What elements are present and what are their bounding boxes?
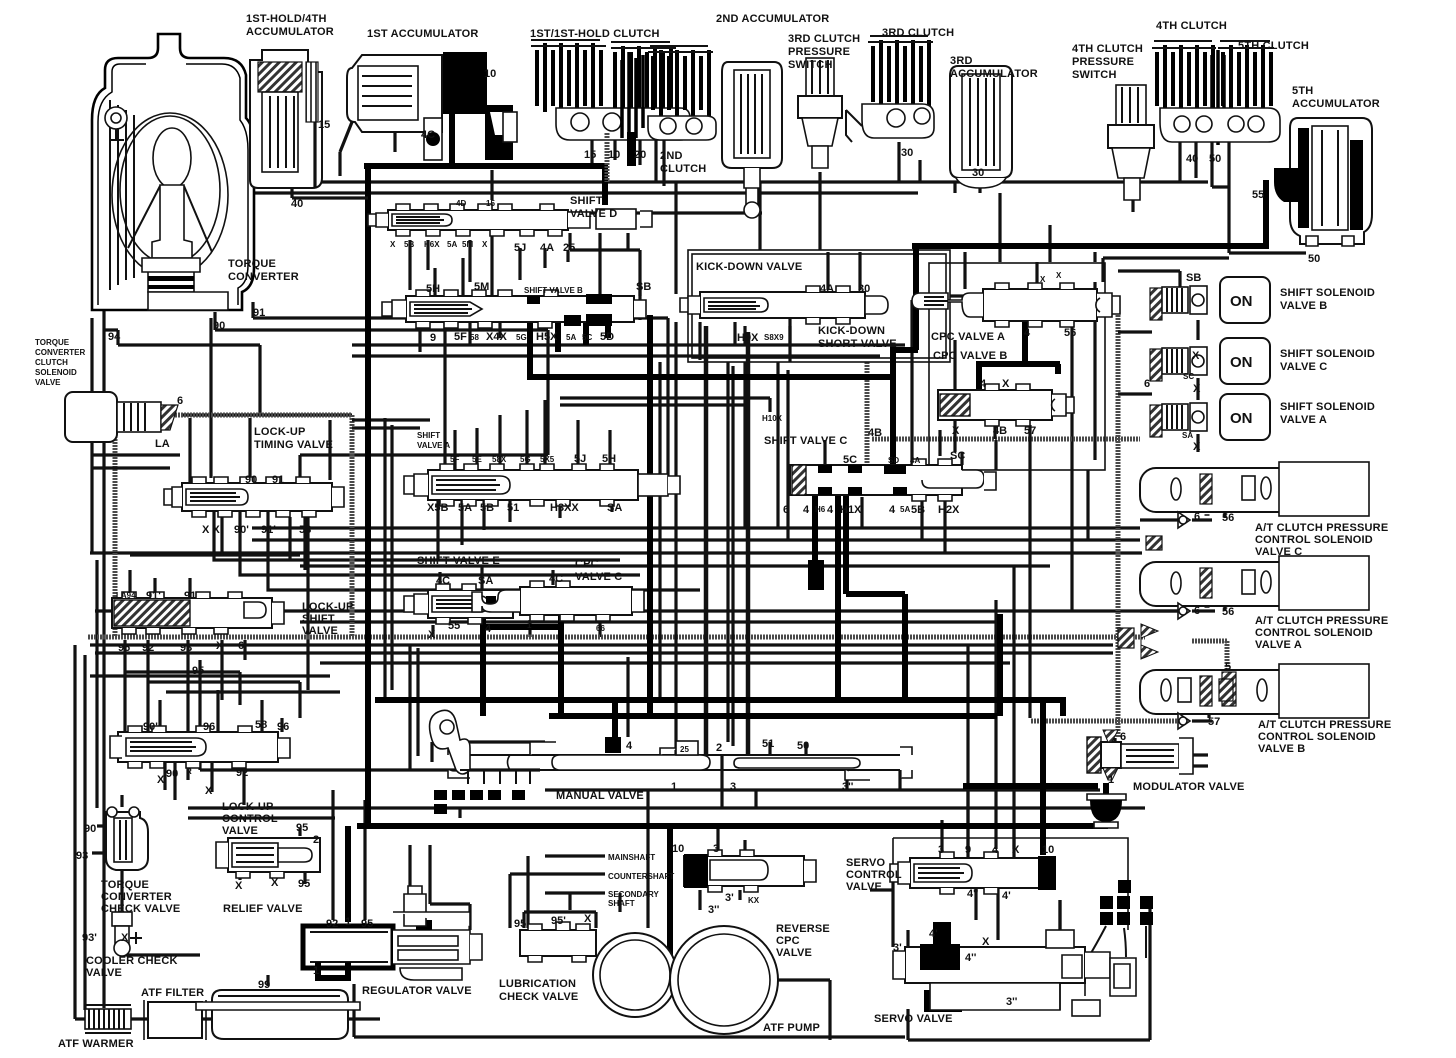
- svg-text:X: X: [271, 877, 279, 889]
- svg-text:5J: 5J: [514, 242, 526, 254]
- wire top right link: [1093, 252, 1096, 262]
- wire TCC solenoid 6: [182, 413, 352, 416]
- svg-text:ATF PUMP: ATF PUMP: [763, 1022, 820, 1034]
- svg-text:X5B: X5B: [427, 502, 448, 514]
- svg-text:LOCK-UP: LOCK-UP: [222, 801, 274, 813]
- svg-text:10: 10: [672, 843, 684, 855]
- thick shiftB drops: [530, 315, 650, 716]
- svg-text:SERVO: SERVO: [846, 857, 886, 869]
- svg-text:40: 40: [291, 198, 303, 210]
- wire cpc box: [929, 263, 1105, 470]
- svg-text:4'': 4'': [965, 952, 977, 964]
- torque converter U-TC: [92, 34, 254, 310]
- clutch hub 1st: [622, 52, 643, 148]
- wire bus y653: [95, 651, 1113, 654]
- regulator valve: [303, 886, 482, 980]
- 3rd clutch: [846, 36, 934, 142]
- wire 2nd accum drop: [752, 168, 760, 250]
- port 20 black: [627, 132, 636, 166]
- wire 50 accum route: [1103, 140, 1306, 282]
- svg-text:3': 3': [893, 942, 902, 954]
- gear ind squares: [1100, 880, 1153, 925]
- svg-text:90: 90: [213, 320, 225, 332]
- thick bus y700: [375, 697, 1063, 703]
- svg-text:90: 90: [245, 474, 257, 486]
- wire servo bottom link: [908, 900, 1150, 1040]
- svg-text:MODULATOR VALVE: MODULATOR VALVE: [1133, 781, 1245, 793]
- svg-text:20: 20: [634, 149, 646, 161]
- svg-text:4TH CLUTCH: 4TH CLUTCH: [1072, 43, 1143, 55]
- wire torque converter left feeds: [102, 300, 105, 1008]
- wire 3rd psw drop: [818, 172, 821, 250]
- svg-text:1: 1: [527, 621, 532, 630]
- wire mid bundle5: [352, 420, 430, 428]
- svg-text:4: 4: [1024, 327, 1031, 339]
- svg-text:5M: 5M: [462, 240, 473, 249]
- wire mid bundle4: [300, 564, 1050, 567]
- shift valve B: [382, 290, 646, 328]
- svg-text:30: 30: [858, 283, 870, 295]
- svg-text:4A: 4A: [540, 242, 554, 254]
- svg-text:TORQUE: TORQUE: [101, 879, 149, 891]
- wire suction bundle: [90, 663, 1010, 676]
- svg-text:6: 6: [1144, 378, 1150, 390]
- svg-text:5B: 5B: [404, 240, 414, 249]
- wire 94: [104, 330, 260, 415]
- servo control valve: [890, 852, 1056, 894]
- 1st/1st-hold clutch: [531, 40, 690, 140]
- svg-text:99: 99: [258, 979, 270, 991]
- TCC solenoid: [65, 392, 178, 442]
- svg-text:SHIFT: SHIFT: [417, 431, 440, 440]
- wire cpcB bottom 4B: [993, 421, 996, 439]
- wire left bus C: [95, 560, 98, 808]
- thick y377 bus: [527, 374, 895, 380]
- svg-text:25: 25: [680, 745, 689, 754]
- svg-text:CPC: CPC: [575, 558, 599, 570]
- wire lockup control outputs: [165, 762, 244, 805]
- svg-text:CLUTCH: CLUTCH: [35, 358, 68, 367]
- svg-text:5H: 5H: [426, 283, 440, 295]
- svg-text:SA: SA: [478, 575, 493, 587]
- svg-text:9: 9: [965, 844, 971, 856]
- svg-text:5H: 5H: [602, 453, 616, 465]
- svg-text:9: 9: [430, 332, 436, 344]
- svg-text:MAINSHAFT: MAINSHAFT: [608, 853, 655, 862]
- manual valve lever: [430, 710, 470, 774]
- svg-text:4B: 4B: [868, 427, 882, 439]
- svg-text:6: 6: [238, 640, 244, 652]
- hatch block 5: [1219, 679, 1233, 701]
- svg-text:50: 50: [1308, 253, 1320, 265]
- svg-text:5A: 5A: [447, 240, 457, 249]
- svg-text:COUNTERSHAFT: COUNTERSHAFT: [608, 872, 674, 881]
- svg-text:57: 57: [1208, 716, 1220, 728]
- 1st accumulator: [340, 52, 487, 176]
- svg-text:58X: 58X: [492, 455, 507, 464]
- svg-text:ON: ON: [1230, 293, 1253, 310]
- wire 4th psw drop: [1131, 182, 1134, 212]
- svg-text:SHIFT SOLENOID: SHIFT SOLENOID: [1280, 287, 1375, 299]
- wire shiftE feeds: [433, 565, 482, 637]
- lubrication check valve: [520, 912, 596, 962]
- svg-text:ACCUMULATOR: ACCUMULATOR: [950, 68, 1038, 80]
- svg-text:H1X: H1X: [840, 504, 862, 516]
- svg-text:LUBRICATION: LUBRICATION: [499, 978, 576, 990]
- svg-text:5J: 5J: [574, 453, 586, 465]
- svg-text:X: X: [584, 913, 592, 925]
- svg-text:3RD: 3RD: [950, 55, 973, 67]
- torque converter check valve: [106, 807, 148, 870]
- svg-text:4': 4': [1002, 890, 1011, 902]
- svg-text:90': 90': [143, 721, 158, 733]
- wire hatch main bus: [88, 635, 1145, 640]
- wire solenoid feeds: [1118, 271, 1198, 452]
- thick right jog: [893, 243, 918, 472]
- wire cpcA top feeds: [965, 193, 1050, 290]
- svg-text:3: 3: [713, 843, 719, 855]
- svg-text:5D: 5D: [600, 331, 614, 343]
- svg-text:56: 56: [1222, 512, 1234, 524]
- svg-text:CONTROL SOLENOID: CONTROL SOLENOID: [1255, 627, 1373, 639]
- svg-text:58: 58: [299, 524, 311, 536]
- svg-text:3RD CLUTCH: 3RD CLUTCH: [882, 27, 954, 39]
- svg-text:LA: LA: [155, 438, 170, 450]
- svg-text:SHIFT VALVE C: SHIFT VALVE C: [764, 435, 847, 447]
- wire servo control long drops: [968, 566, 1014, 850]
- svg-text:3RD CLUTCH: 3RD CLUTCH: [788, 33, 860, 45]
- svg-text:5B: 5B: [480, 502, 494, 514]
- svg-text:A/T CLUTCH PRESSURE: A/T CLUTCH PRESSURE: [1258, 719, 1391, 731]
- wire timing valve drops: [222, 517, 290, 560]
- 4th clutch: [1152, 41, 1216, 112]
- svg-text:1ST/1ST-HOLD CLUTCH: 1ST/1ST-HOLD CLUTCH: [530, 28, 660, 40]
- svg-text:93: 93: [180, 642, 192, 654]
- wire relief to regulator: [333, 790, 365, 920]
- wire 56 long drop: [1070, 322, 1073, 612]
- svg-text:5: 5: [1225, 661, 1231, 673]
- small check valve pair: [424, 105, 517, 160]
- wire valve D bottom drops: [410, 240, 568, 290]
- svg-text:VALVE B: VALVE B: [1280, 300, 1327, 312]
- svg-text:CONTROL: CONTROL: [222, 813, 278, 825]
- wire 90: [215, 312, 548, 478]
- svg-text:3: 3: [730, 781, 736, 793]
- svg-text:X: X: [216, 640, 224, 652]
- svg-text:92: 92: [142, 642, 154, 654]
- wire shift B drops thin: [420, 322, 500, 470]
- svg-text:X: X: [1192, 350, 1200, 362]
- thick cpcC drop: [558, 610, 564, 716]
- svg-text:6: 6: [1194, 511, 1200, 523]
- wire shiftC right spool lines: [962, 440, 996, 470]
- AT cpc solenoid valve B: [1140, 664, 1369, 718]
- svg-text:VALVE A: VALVE A: [1255, 639, 1302, 651]
- wire mid bundle2: [252, 538, 1140, 541]
- svg-text:40: 40: [1186, 153, 1198, 165]
- wire 5th clutch 50: [1212, 142, 1229, 187]
- svg-text:93': 93': [82, 932, 97, 944]
- wire pump lines: [131, 975, 905, 1037]
- svg-text:91: 91: [184, 590, 196, 602]
- svg-text:15: 15: [486, 199, 495, 208]
- svg-text:90': 90': [234, 524, 249, 536]
- svg-text:5M: 5M: [474, 281, 489, 293]
- wire servo box inner: [908, 900, 1060, 947]
- svg-text:R: R: [186, 767, 192, 776]
- svg-text:66: 66: [596, 624, 605, 633]
- svg-text:TORQUE: TORQUE: [228, 258, 276, 270]
- svg-text:96: 96: [277, 721, 289, 733]
- svg-text:X4X: X4X: [486, 331, 507, 343]
- wire 58: [308, 420, 330, 690]
- svg-text:3: 3: [938, 844, 944, 856]
- svg-text:S8X9: S8X9: [764, 333, 784, 342]
- svg-text:SOLENOID: SOLENOID: [35, 368, 77, 377]
- svg-text:4: 4: [889, 504, 896, 516]
- svg-text:H2X: H2X: [938, 504, 960, 516]
- svg-text:4: 4: [980, 378, 987, 390]
- svg-text:50: 50: [1209, 153, 1221, 165]
- wire 4B pipe: [867, 437, 1140, 465]
- thick shiftE drop: [480, 604, 486, 716]
- wire regulator feeds: [410, 845, 470, 930]
- svg-text:6: 6: [1120, 731, 1126, 743]
- wire shiftA bottoms: [438, 500, 612, 560]
- cpc valve A: [912, 283, 1120, 327]
- svg-text:55: 55: [1252, 189, 1264, 201]
- svg-text:3': 3': [725, 892, 734, 904]
- svg-text:VALVE B: VALVE B: [1258, 743, 1305, 755]
- 3rd clutch pressure switch: [798, 58, 842, 168]
- svg-text:VALVE D: VALVE D: [570, 208, 617, 220]
- thick shiftC drops: [815, 495, 905, 700]
- svg-text:5G: 5G: [516, 333, 527, 342]
- svg-text:A/T CLUTCH PRESSURE: A/T CLUTCH PRESSURE: [1255, 522, 1388, 534]
- svg-text:92: 92: [236, 767, 248, 779]
- wire stair steps left: [125, 672, 340, 718]
- cpc valve C: [472, 581, 644, 621]
- shift valve A: [404, 464, 680, 506]
- svg-text:CONTROL: CONTROL: [846, 869, 902, 881]
- svg-text:2ND ACCUMULATOR: 2ND ACCUMULATOR: [716, 13, 829, 25]
- svg-text:90: 90: [166, 768, 178, 780]
- wire lockup timing outputs: [214, 512, 700, 590]
- thick bottom bus: [357, 823, 1108, 829]
- svg-text:SA: SA: [1182, 431, 1193, 440]
- svg-text:91: 91: [272, 474, 284, 486]
- AT cpc solenoid valve A: [1140, 556, 1369, 610]
- svg-text:96: 96: [118, 642, 130, 654]
- svg-text:57: 57: [1024, 425, 1036, 437]
- svg-text:4: 4: [485, 623, 492, 635]
- wire modulator 6: [1113, 738, 1116, 745]
- svg-text:1ST ACCUMULATOR: 1ST ACCUMULATOR: [367, 28, 479, 40]
- wire valveB to bundles: [676, 182, 735, 360]
- svg-text:REVERSE: REVERSE: [776, 923, 830, 935]
- svg-text:SWITCH: SWITCH: [788, 59, 833, 71]
- svg-text:5G: 5G: [520, 455, 531, 464]
- check sym capsule B: [1178, 713, 1190, 729]
- lock-up timing valve: [164, 477, 344, 517]
- svg-text:PRESSURE: PRESSURE: [788, 46, 850, 58]
- 5th clutch: [1160, 41, 1280, 142]
- svg-text:X: X: [121, 932, 129, 944]
- wire manual left arm: [432, 742, 545, 762]
- shift valve C: [790, 459, 996, 501]
- wire lockup control feeds: [160, 690, 282, 732]
- wire top bus 2: [95, 191, 918, 194]
- svg-text:4: 4: [992, 844, 999, 856]
- svg-text:X: X: [1193, 383, 1201, 395]
- svg-text:X: X: [982, 936, 990, 948]
- modulator check ball: [1087, 794, 1126, 828]
- svg-text:VALVE C: VALVE C: [1280, 361, 1327, 373]
- svg-text:VALVE A: VALVE A: [417, 441, 450, 450]
- thick bus y716: [549, 614, 1063, 716]
- svg-text:CLUTCH: CLUTCH: [660, 163, 706, 175]
- svg-text:2: 2: [313, 834, 319, 846]
- svg-text:5E: 5E: [472, 455, 482, 464]
- svg-text:X: X: [1012, 844, 1020, 856]
- svg-text:5X5: 5X5: [540, 455, 555, 464]
- svg-text:X: X: [157, 774, 165, 786]
- svg-text:REGULATOR VALVE: REGULATOR VALVE: [362, 985, 472, 997]
- wire shift B tops: [435, 230, 640, 296]
- svg-text:SWITCH: SWITCH: [1072, 69, 1117, 81]
- shift valve E: [404, 584, 513, 624]
- svg-text:X: X: [428, 629, 436, 641]
- svg-text:SHIFT: SHIFT: [302, 613, 335, 625]
- svg-text:4: 4: [626, 740, 633, 752]
- wire shiftB SB line: [752, 308, 790, 345]
- svg-text:CPC VALVE A: CPC VALVE A: [931, 331, 1005, 343]
- wire 4B down from kick: [865, 362, 870, 437]
- wire shiftA top feeds: [455, 400, 610, 470]
- kick-down valve spool: [680, 286, 888, 324]
- svg-text:SA: SA: [607, 502, 622, 514]
- svg-text:30: 30: [972, 167, 984, 179]
- svg-text:H9X: H9X: [737, 332, 759, 344]
- wire tc check valve: [92, 795, 200, 955]
- oil pan: [196, 990, 360, 1039]
- svg-text:SECONDARY: SECONDARY: [608, 890, 659, 899]
- wire heavy center pair: [706, 326, 748, 755]
- wire lockup hatch box: [115, 415, 352, 637]
- svg-text:VALVE: VALVE: [86, 967, 122, 979]
- wire 3rd accum 30: [955, 182, 980, 193]
- svg-text:4A: 4A: [910, 456, 920, 465]
- svg-text:CPC: CPC: [776, 935, 800, 947]
- svg-text:30: 30: [901, 147, 913, 159]
- wire lub check feeds: [620, 790, 648, 928]
- wire h10x line: [560, 398, 770, 412]
- wire servo control drops: [942, 790, 1014, 858]
- wire capsuleA port6: [1205, 571, 1210, 608]
- svg-text:95: 95: [514, 918, 526, 930]
- shift solenoid valve B assy: [1150, 277, 1270, 323]
- atf pump circles: [593, 926, 778, 1034]
- svg-text:6: 6: [1194, 605, 1200, 617]
- svg-text:5A: 5A: [900, 505, 910, 514]
- svg-text:X X: X X: [202, 524, 220, 536]
- svg-text:4: 4: [827, 504, 834, 516]
- wire lockup shift inputs: [125, 578, 245, 780]
- wire left bus upper: [92, 318, 180, 553]
- svg-text:VALVE C: VALVE C: [1255, 546, 1302, 558]
- svg-text:4C: 4C: [436, 575, 450, 587]
- wire right mid verticals: [1088, 282, 1095, 540]
- svg-text:50: 50: [797, 740, 809, 752]
- svg-text:X: X: [1002, 378, 1010, 390]
- svg-text:SB: SB: [636, 281, 651, 293]
- svg-text:ATF WARMER: ATF WARMER: [58, 1038, 134, 1050]
- wire capsuleA row: [1140, 597, 1225, 611]
- svg-text:X: X: [482, 240, 488, 249]
- svg-text:51: 51: [762, 738, 774, 750]
- svg-text:15: 15: [584, 149, 596, 161]
- svg-text:SHIFT VALVE E: SHIFT VALVE E: [417, 555, 500, 567]
- wire manual to bus links: [188, 790, 756, 818]
- svg-text:95: 95: [361, 918, 373, 930]
- svg-text:1: 1: [345, 916, 351, 928]
- 2nd clutch: [648, 46, 716, 140]
- svg-text:95': 95': [551, 915, 566, 927]
- wire cpcC feeds: [530, 570, 615, 637]
- svg-text:CHECK VALVE: CHECK VALVE: [101, 903, 180, 915]
- svg-text:56: 56: [1222, 606, 1234, 618]
- thick modulator line: [963, 783, 1106, 826]
- thick manual 4: [612, 700, 618, 737]
- wire pump outlet right: [778, 980, 830, 1040]
- svg-text:A/T CLUTCH PRESSURE: A/T CLUTCH PRESSURE: [1255, 615, 1388, 627]
- svg-text:CONTROL SOLENOID: CONTROL SOLENOID: [1255, 534, 1373, 546]
- wire left bus B: [83, 655, 86, 1010]
- wire kickdown box: [688, 250, 950, 362]
- wire kickdown internal: [745, 252, 860, 362]
- svg-text:ATF FILTER: ATF FILTER: [141, 987, 204, 999]
- wire mid bundle3: [90, 551, 1142, 554]
- svg-text:3'': 3'': [842, 781, 854, 793]
- svg-text:95: 95: [298, 878, 310, 890]
- svg-text:CONVERTER: CONVERTER: [35, 348, 85, 357]
- svg-text:10: 10: [484, 68, 496, 80]
- svg-text:5TH CLUTCH: 5TH CLUTCH: [1238, 40, 1309, 52]
- hatch block 6b: [1118, 628, 1134, 648]
- modulator valve: [1087, 730, 1193, 780]
- svg-text:3'': 3'': [1006, 996, 1018, 1008]
- svg-text:SC: SC: [1183, 372, 1194, 381]
- svg-text:58: 58: [470, 333, 479, 342]
- svg-text:CONTROL SOLENOID: CONTROL SOLENOID: [1258, 731, 1376, 743]
- 5th accumulator: [1274, 118, 1372, 246]
- svg-text:VALVE: VALVE: [222, 825, 258, 837]
- svg-text:3'': 3'': [708, 904, 720, 916]
- wire center pipe bundle y345: [352, 345, 905, 356]
- svg-text:94: 94: [108, 331, 121, 343]
- wire servo mid: [976, 887, 998, 940]
- svg-text:VALVE C: VALVE C: [575, 571, 622, 583]
- svg-text:96: 96: [203, 721, 215, 733]
- atf warmer: [85, 1005, 131, 1033]
- wire 25 drop: [570, 233, 640, 320]
- wire capsuleC port6: [1205, 478, 1210, 516]
- wire center long verticals: [660, 322, 733, 755]
- svg-text:6: 6: [177, 395, 183, 407]
- svg-text:1: 1: [671, 781, 677, 793]
- svg-text:CONVERTER: CONVERTER: [101, 891, 172, 903]
- svg-text:SD: SD: [888, 456, 899, 465]
